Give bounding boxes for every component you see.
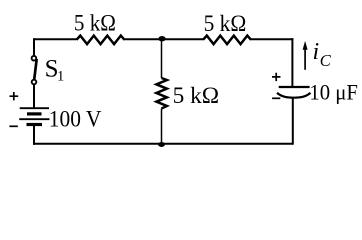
svg-text:10 μF: 10 μF [309,79,358,104]
svg-text:5 kΩ: 5 kΩ [204,11,247,37]
svg-text:i: i [313,39,320,65]
svg-text:1: 1 [57,68,64,84]
svg-text:5 kΩ: 5 kΩ [74,10,116,36]
svg-text:C: C [320,51,332,70]
svg-text:5 kΩ: 5 kΩ [173,83,220,109]
svg-text:100 V: 100 V [49,106,102,132]
